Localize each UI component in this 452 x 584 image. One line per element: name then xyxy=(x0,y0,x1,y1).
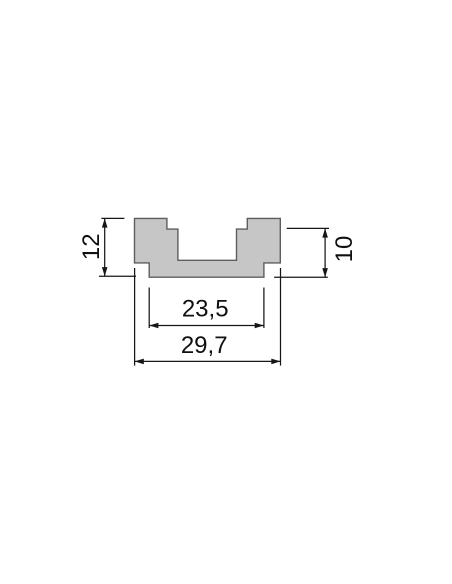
dim 12: up arrow xyxy=(102,218,108,227)
dim 10: down arrow xyxy=(322,268,328,277)
dim 12: bottom extension line xyxy=(99,275,136,277)
dim 29,7: left arrow xyxy=(135,359,144,365)
dim 23,5: right arrow xyxy=(255,323,264,329)
dim 29,7: dimension line xyxy=(135,360,281,362)
profile cross-section body xyxy=(135,218,281,277)
dim 10: dimension line xyxy=(324,228,326,277)
svg-text:23,5: 23,5 xyxy=(182,295,229,322)
svg-text:12: 12 xyxy=(78,233,105,260)
dim 23,5: left arrow xyxy=(149,323,158,329)
dim 23,5: left extension line xyxy=(148,288,150,329)
dim 10: bottom extension line xyxy=(274,276,328,278)
svg-text:29,7: 29,7 xyxy=(181,332,228,359)
svg-text:10: 10 xyxy=(331,236,358,263)
dim 12: down arrow xyxy=(102,267,108,276)
dim 10: top extension line xyxy=(287,227,329,229)
dim 29,7: left extension line xyxy=(134,268,136,366)
dim 10: up arrow xyxy=(322,228,328,237)
dim 12: dimension line xyxy=(104,218,106,276)
dim 23,5: right extension line xyxy=(263,288,265,329)
dim 23,5: dimension line xyxy=(149,325,264,327)
dim 12: top extension line xyxy=(101,217,124,219)
dim 29,7: right arrow xyxy=(271,359,280,365)
dim 29,7: right extension line xyxy=(280,268,282,366)
